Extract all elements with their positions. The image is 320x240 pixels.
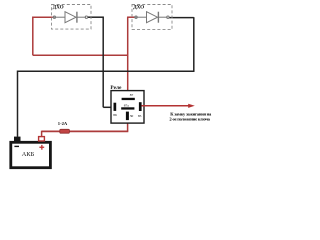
relay pin 87a bar: [121, 107, 134, 109]
svg-text:2-ое положение ключа: 2-ое положение ключа: [169, 117, 210, 122]
relay pin 87 bar: [122, 98, 135, 100]
wire: red vertical down left: [32, 17, 34, 56]
wire: red vertical to relay pin 87: [127, 17, 129, 98]
svg-text:К замку зажигания на: К замку зажигания на: [170, 111, 212, 116]
plus sign: [39, 147, 44, 148]
wire: black from DRL2 cathode: [169, 17, 194, 19]
svg-text:86: 86: [113, 113, 117, 117]
svg-text:АКБ: АКБ: [22, 151, 35, 158]
relay pin 85 bar: [139, 102, 142, 111]
svg-text:87а: 87а: [124, 104, 130, 108]
wire: red from relay pin 30 down: [127, 120, 129, 132]
wire: black into pin 86: [103, 106, 114, 108]
svg-text:30: 30: [130, 114, 134, 118]
wire: red down to + terminal: [41, 131, 43, 137]
wire: red horizontal middle: [33, 54, 128, 56]
wire: red from DRL1 anode to left corner: [33, 16, 53, 18]
wire: red bottom horizontal to battery: [42, 130, 129, 132]
DRL unit 2 dashed box: [132, 5, 172, 30]
relay pin 30 bar: [126, 112, 129, 121]
wire: black from DRL1 cathode to corner: [88, 16, 104, 18]
battery box: [11, 142, 51, 167]
diode D1: [53, 12, 88, 23]
svg-text:ДХО: ДХО: [53, 5, 64, 11]
minus sign: [14, 146, 19, 147]
DRL unit 1 dashed box: [52, 5, 92, 30]
relay pin 86 bar: [114, 103, 117, 111]
svg-text:87: 87: [130, 93, 134, 97]
wire: red stub DRL2 anode: [127, 16, 134, 18]
fuse 1-2A: [60, 129, 70, 133]
svg-text:1-2А: 1-2А: [58, 121, 68, 126]
diode D2: [134, 12, 169, 23]
wire: black right vertical: [193, 17, 195, 71]
wire: red from pin 85 to ignition arrow: [141, 105, 189, 107]
svg-text:85: 85: [138, 114, 142, 118]
svg-text:ДХО: ДХО: [133, 5, 144, 11]
wire: black long horizontal: [18, 70, 195, 72]
battery plus terminal: [39, 137, 45, 141]
svg-text:Реле: Реле: [110, 85, 122, 91]
battery minus terminal: [14, 137, 21, 141]
wire: black down to battery minus: [17, 71, 19, 137]
relay box: [111, 91, 144, 124]
arrowhead: [188, 104, 195, 108]
wire: black vertical to relay pin 86: [102, 17, 104, 108]
